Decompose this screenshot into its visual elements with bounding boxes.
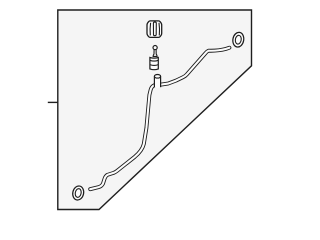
left tick mark (48, 101, 58, 103)
service port fitting on tube (154, 75, 160, 89)
band lines (150, 59, 158, 62)
A/C line tube: dark outline (90, 48, 229, 190)
valve core (150, 46, 158, 70)
O-ring top right (232, 31, 245, 47)
body (150, 58, 158, 70)
knurled cap (147, 21, 162, 38)
tube white core (90, 48, 229, 190)
stem (153, 50, 157, 57)
pin head (153, 46, 157, 50)
panel (clipped rectangle border) (58, 10, 252, 210)
O-ring bottom left (71, 185, 85, 201)
